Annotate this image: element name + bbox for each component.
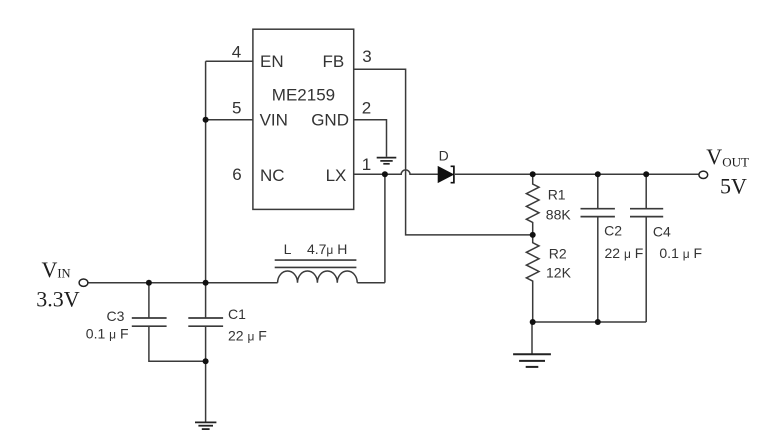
capacitor C4 plates — [630, 209, 663, 217]
svg-text:0.1 μ F: 0.1 μ F — [659, 245, 702, 261]
svg-text:LX: LX — [326, 166, 347, 185]
node LX / inductor — [382, 171, 388, 177]
wire bottom rail R2-C2-C4 — [533, 321, 647, 323]
inductor L coil — [278, 271, 358, 283]
svg-text:L 4.7μ H: L 4.7μ H — [284, 241, 348, 257]
node VIN pin junction — [203, 117, 209, 123]
node input rail / VIN rail — [203, 280, 209, 286]
node input rail / C3 — [146, 280, 152, 286]
svg-text:EN: EN — [260, 52, 284, 71]
svg-text:5V: 5V — [720, 173, 747, 198]
wire left vertical below C1 — [205, 326, 207, 422]
wire LX pin1 with hop over FB line — [354, 170, 439, 174]
node bottom rail R2 — [530, 319, 536, 325]
capacitor C2 vertical bottom — [597, 217, 599, 322]
svg-text:3: 3 — [362, 47, 371, 66]
wire inductor right end up — [357, 282, 385, 284]
wire diode cathode to output — [455, 173, 699, 175]
svg-text:C1: C1 — [228, 306, 246, 322]
capacitor C2 plates — [581, 209, 615, 217]
ground (GND pin) — [377, 158, 397, 164]
svg-text:4: 4 — [232, 43, 241, 62]
svg-text:1: 1 — [362, 155, 371, 174]
capacitor C3 plates — [132, 318, 167, 326]
inductor core bar lower — [275, 266, 357, 268]
wire EN pin4 — [206, 60, 253, 62]
svg-text:5: 5 — [232, 99, 241, 118]
output terminal circle — [699, 171, 708, 178]
node LX rail / C2 — [595, 171, 601, 177]
wire FB pin3 to divider — [354, 69, 533, 235]
svg-text:0.1 μ F: 0.1 μ F — [86, 326, 129, 342]
svg-text:22 μ F: 22 μ F — [605, 245, 644, 261]
ground (R2 bottom) — [513, 354, 551, 367]
svg-text:88K: 88K — [546, 207, 572, 223]
svg-text:D: D — [439, 147, 449, 163]
svg-text:R2: R2 — [549, 246, 567, 262]
capacitor C2 vertical top — [597, 174, 599, 208]
wire R2 ground stem — [531, 322, 533, 354]
wire left vertical VIN rail — [205, 61, 207, 318]
ground (input C1 bottom) — [195, 422, 216, 429]
resistor R1 body — [526, 174, 539, 235]
input terminal circle — [79, 279, 88, 286]
node R1-R2 divider — [530, 232, 536, 238]
diode D — [438, 166, 454, 182]
svg-text:3.3V: 3.3V — [36, 287, 80, 312]
wire input rail — [88, 282, 278, 284]
svg-text:GND: GND — [311, 111, 349, 130]
capacitor C3 vertical top — [148, 283, 150, 318]
capacitor C3 vertical bottom and link to C1 — [149, 326, 206, 361]
svg-text:12K: 12K — [546, 265, 572, 281]
svg-text:C2: C2 — [604, 223, 622, 239]
wire LX down to inductor — [384, 174, 386, 282]
wire GND pin2 — [354, 120, 387, 157]
capacitor C4 vertical bottom — [645, 217, 647, 322]
node bottom rail C2 — [595, 319, 601, 325]
op-amp U1 ME2159 IC box — [253, 29, 354, 209]
svg-text:C4: C4 — [653, 224, 671, 240]
node LX rail / R1 — [530, 171, 536, 177]
svg-text:ME2159: ME2159 — [272, 85, 335, 104]
capacitor C1 plates — [188, 318, 223, 326]
svg-text:FB: FB — [323, 52, 345, 71]
node LX rail / C4 — [643, 171, 649, 177]
node C3-C1 bottom link — [203, 358, 209, 364]
svg-text:VIN: VIN — [260, 111, 288, 130]
svg-text:R1: R1 — [548, 187, 566, 203]
resistor R2 body — [526, 235, 539, 322]
wire VIN pin5 — [206, 119, 253, 121]
svg-text:6: 6 — [232, 165, 241, 184]
capacitor C4 vertical top — [645, 174, 647, 208]
svg-text:C3: C3 — [107, 308, 125, 324]
svg-text:2: 2 — [362, 99, 371, 118]
inductor core bar upper — [275, 259, 357, 261]
svg-text:NC: NC — [260, 166, 285, 185]
svg-text:22 μ F: 22 μ F — [228, 328, 267, 344]
